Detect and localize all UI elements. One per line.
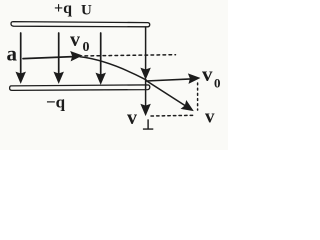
trajectory curve <box>80 57 146 80</box>
svg-text:v: v <box>70 29 80 51</box>
field arrowhead E1 <box>16 72 25 83</box>
field line E4 (at right edge of plates) <box>145 27 147 71</box>
field arrowhead E3 <box>96 73 105 84</box>
svg-text:v: v <box>205 107 215 128</box>
svg-text:U: U <box>81 3 92 19</box>
exit velocity horizontal component v0 <box>146 79 191 81</box>
svg-text:0: 0 <box>214 76 221 91</box>
svg-text:⊥: ⊥ <box>142 119 154 134</box>
svg-text:+q: +q <box>54 0 72 17</box>
arrowhead resultant v <box>181 101 193 111</box>
svg-text:v: v <box>127 107 137 129</box>
arrowhead exit v0 <box>189 74 200 83</box>
perpendicular velocity component v-perp <box>145 80 147 106</box>
field arrowhead E2 <box>54 72 63 83</box>
top plate <box>11 22 150 27</box>
bottom plate <box>10 85 150 91</box>
arrowhead initial v0 <box>71 52 82 61</box>
field line E1 <box>20 33 22 75</box>
resultant velocity vector v <box>146 81 187 107</box>
field line E3 <box>100 33 102 76</box>
field line E2 <box>58 33 60 75</box>
dashed horizontal guide line <box>85 55 176 56</box>
dashed horizontal guide (parallelogram side) <box>151 114 194 117</box>
dashed vertical guide (parallelogram side) <box>197 83 199 110</box>
initial velocity vector v0 <box>23 57 73 59</box>
svg-text:a: a <box>7 42 18 66</box>
svg-text:−q: −q <box>46 93 66 112</box>
svg-text:v: v <box>202 62 213 86</box>
field arrowhead E4 <box>141 68 150 79</box>
arrowhead v-perp <box>141 104 150 115</box>
svg-text:0: 0 <box>83 40 90 55</box>
